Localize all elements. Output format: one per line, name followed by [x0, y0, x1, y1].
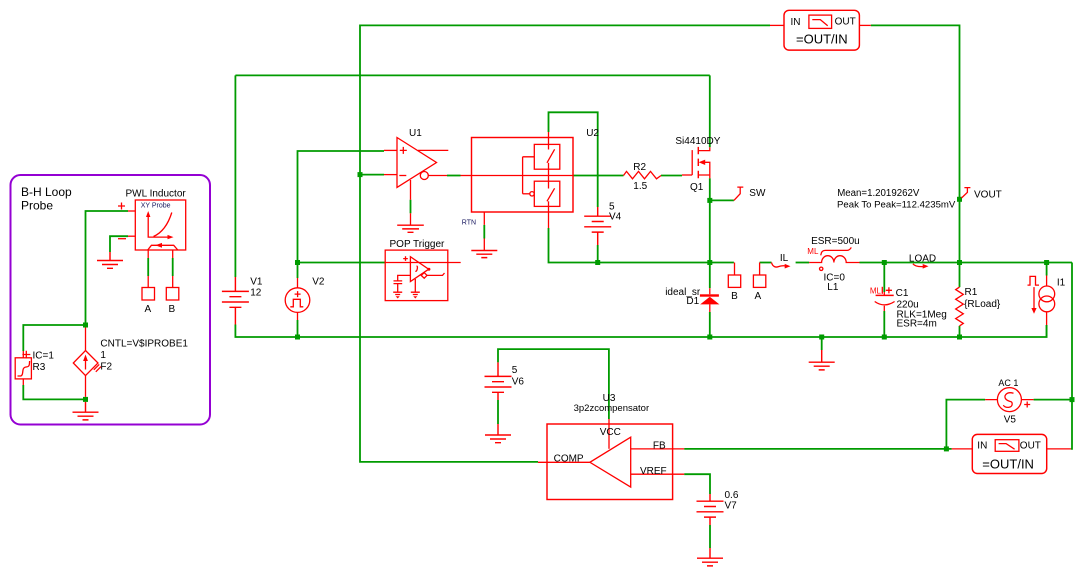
svg-text:ESR=4m: ESR=4m	[897, 319, 937, 330]
svg-text:VCC: VCC	[600, 427, 621, 438]
svg-text:FB: FB	[653, 440, 666, 451]
svg-text:IN: IN	[791, 17, 801, 28]
svg-text:Si4410DY: Si4410DY	[675, 136, 720, 147]
svg-text:COMP: COMP	[554, 454, 584, 465]
svg-text:V1: V1	[250, 277, 263, 288]
svg-text:Peak To Peak=112.4235mV: Peak To Peak=112.4235mV	[837, 199, 956, 210]
svg-text:Q1: Q1	[690, 182, 704, 193]
svg-text:VOUT: VOUT	[974, 189, 1002, 200]
svg-text:Probe: Probe	[21, 199, 53, 213]
svg-text:0.6: 0.6	[725, 490, 739, 501]
svg-text:V5: V5	[1004, 414, 1017, 425]
svg-text:1: 1	[100, 350, 106, 361]
svg-text:5: 5	[512, 365, 518, 376]
svg-text:3p2zcompensator: 3p2zcompensator	[574, 403, 650, 414]
svg-text:LOAD: LOAD	[909, 253, 936, 264]
svg-text:IC=1: IC=1	[33, 350, 55, 361]
svg-text:A: A	[145, 304, 152, 315]
svg-text:D1: D1	[686, 296, 699, 307]
svg-text:XY Probe: XY Probe	[141, 203, 171, 210]
svg-text:RTN: RTN	[462, 220, 476, 227]
svg-text:SW: SW	[749, 188, 766, 199]
svg-text:12: 12	[250, 288, 262, 299]
svg-text:R3: R3	[33, 362, 46, 373]
svg-text:1.5: 1.5	[633, 181, 647, 192]
svg-text:OUT: OUT	[1020, 440, 1041, 451]
svg-text:ML: ML	[870, 287, 882, 296]
svg-text:V2: V2	[312, 277, 325, 288]
svg-text:A: A	[755, 291, 762, 302]
svg-text:POP Trigger: POP Trigger	[390, 239, 446, 250]
svg-text:V6: V6	[512, 377, 525, 388]
svg-text:ESR=500u: ESR=500u	[811, 236, 860, 247]
svg-text:I1: I1	[1057, 277, 1066, 288]
svg-text:U1: U1	[409, 128, 422, 139]
svg-text:R1: R1	[965, 287, 978, 298]
svg-text:B: B	[731, 291, 738, 302]
svg-text:L1: L1	[827, 282, 839, 293]
svg-text:F2: F2	[100, 362, 112, 373]
svg-text:IL: IL	[780, 253, 789, 264]
svg-text:AC 1: AC 1	[998, 378, 1018, 388]
svg-text:C1: C1	[896, 288, 909, 299]
svg-text:=OUT/IN: =OUT/IN	[796, 32, 848, 47]
svg-text:V7: V7	[725, 501, 738, 512]
svg-text:B: B	[169, 304, 176, 315]
svg-text:=OUT/IN: =OUT/IN	[982, 456, 1034, 471]
svg-text:V4: V4	[609, 212, 622, 223]
svg-text:OUT: OUT	[835, 16, 856, 27]
svg-text:B-H Loop: B-H Loop	[21, 185, 72, 199]
svg-text:ML: ML	[807, 247, 819, 256]
svg-text:IN: IN	[977, 440, 987, 451]
svg-text:R2: R2	[633, 162, 646, 173]
svg-text:U2: U2	[586, 128, 599, 139]
svg-text:VREF: VREF	[640, 466, 667, 477]
svg-text:Mean=1.2019262V: Mean=1.2019262V	[837, 188, 920, 199]
svg-text:CNTL=V$IPROBE1: CNTL=V$IPROBE1	[100, 339, 188, 350]
svg-text:PWL Inductor: PWL Inductor	[126, 189, 187, 200]
svg-text:{RLoad}: {RLoad}	[964, 299, 1001, 310]
